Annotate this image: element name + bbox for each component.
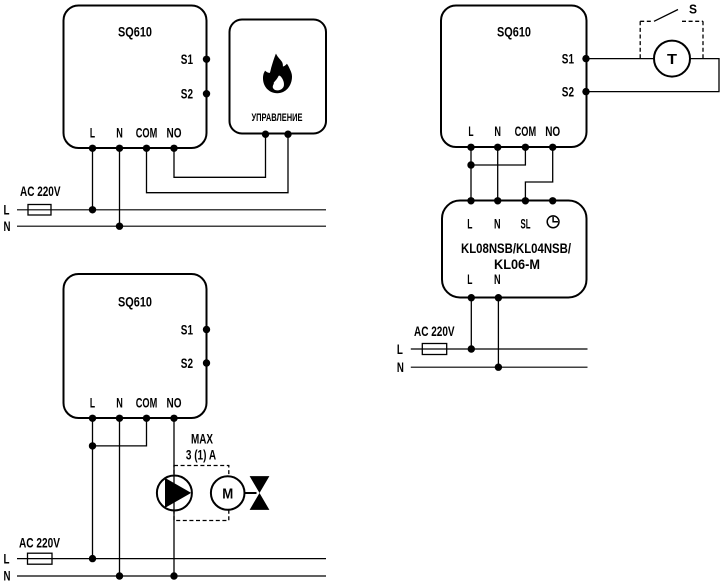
wire S1(U3) sensor loop [586, 59, 719, 92]
terminal dot COM (U3) [522, 144, 529, 151]
wire N(U1) down to mains N [119, 148, 121, 226]
svg-text:COM: COM [136, 394, 158, 410]
pump P1 rotor triangle [165, 478, 191, 508]
dashed load enclosure (pump + motor) [174, 466, 229, 521]
terminal dot NO (U1) [170, 145, 177, 152]
svg-text:УПРАВЛЕНИЕ: УПРАВЛЕНИЕ [252, 112, 303, 124]
junction jumper / L wire (U3) [467, 161, 474, 168]
mains line N (diagram 2) [17, 575, 326, 577]
svg-text:NO: NO [167, 125, 182, 141]
thermostat U3 SQ610 box [441, 6, 587, 148]
svg-text:N: N [4, 218, 11, 234]
svg-text:AC 220V: AC 220V [19, 534, 60, 550]
svg-text:N: N [397, 359, 404, 375]
mains line L (diagram 3) [411, 348, 588, 350]
boiler control box B1 [230, 20, 327, 134]
svg-text:N: N [494, 216, 501, 232]
svg-text:N: N [494, 271, 501, 287]
wire NO(U3) to KL SL [525, 147, 552, 201]
terminal dot KL N bottom (K1) [495, 294, 502, 301]
svg-text:M: M [222, 486, 233, 503]
mains line L (diagram 1) [17, 209, 326, 211]
terminal dot NO (U3) [549, 144, 556, 151]
fuse F1 [28, 205, 51, 216]
dashed sensor box top-right segment [682, 20, 703, 22]
svg-text:SQ610: SQ610 [118, 294, 152, 310]
wire COM(U1) to boiler right terminal [147, 134, 289, 193]
svg-text:COM: COM [136, 125, 158, 141]
flame icon (B1) [263, 54, 292, 93]
fuse F2 [28, 553, 53, 564]
terminal dot KL L bottom (K1) [468, 294, 475, 301]
svg-text:S2: S2 [562, 84, 574, 100]
wire KL L down to mains L [470, 298, 472, 349]
clock icon pin (K1) [547, 216, 559, 228]
terminal dot L (U2) [89, 415, 96, 422]
svg-text:NO: NO [167, 394, 182, 410]
dashed sensor box top-left segment [640, 20, 653, 22]
svg-text:SQ610: SQ610 [497, 24, 531, 40]
wire jumper COM(U2) to L wire [93, 418, 147, 446]
junction N wire / mains N (diagram 3) [495, 364, 502, 371]
temperature sensor T circle [654, 41, 690, 77]
terminal dot N (U2) [116, 415, 123, 422]
terminal dot L (U1) [89, 145, 96, 152]
wire NO(U1) to boiler left terminal [174, 134, 266, 177]
svg-text:N: N [116, 125, 123, 141]
svg-text:T: T [667, 51, 677, 68]
terminal dot S1 (U1) [203, 56, 210, 63]
wire M1 to valve [245, 492, 257, 494]
terminal dot N (U1) [116, 145, 123, 152]
svg-text:S1: S1 [562, 51, 574, 67]
motor M1 circle [211, 476, 245, 510]
thermostat U1 SQ610 box [64, 6, 207, 149]
junction L wire / mains L (diagram 2) [89, 555, 96, 562]
svg-text:L: L [397, 341, 403, 357]
terminal dot COM (U2) [143, 415, 150, 422]
svg-text:KL06-M: KL06-M [494, 256, 540, 272]
fuse F3 [422, 344, 446, 355]
svg-text:S2: S2 [181, 355, 193, 371]
terminal dot L (U3) [467, 144, 474, 151]
junction L wire / mains L (diagram 1) [89, 206, 96, 213]
mains line N (diagram 3) [411, 366, 588, 368]
svg-text:L: L [467, 271, 472, 287]
svg-text:L: L [467, 216, 472, 232]
wire jumper COM(U3) to L wire [471, 147, 525, 165]
terminal dot N (U3) [494, 144, 501, 151]
wire L(U2) down to mains L [92, 418, 94, 558]
svg-text:L: L [468, 123, 473, 139]
svg-text:AC 220V: AC 220V [414, 323, 455, 339]
terminal dot S2 (U1) [203, 90, 210, 97]
junction NO wire / mains N (diagram 2) [170, 572, 177, 579]
svg-text:S1: S1 [181, 51, 193, 67]
svg-text:MAX: MAX [191, 431, 213, 447]
svg-text:N: N [4, 568, 11, 584]
junction N wire / mains N (diagram 2) [116, 572, 123, 579]
svg-text:N: N [494, 123, 501, 139]
terminal dot KL clock top (K1) [549, 197, 556, 204]
terminal dot KL SL top (K1) [522, 197, 529, 204]
wire KL N down to mains N [497, 298, 499, 368]
svg-text:S1: S1 [181, 322, 193, 338]
valve V1 bowtie [250, 476, 270, 510]
svg-text:N: N [116, 394, 123, 410]
svg-text:L: L [4, 550, 10, 566]
wire NO through pump P1 [173, 476, 175, 511]
wire N(U3) to KL N [497, 147, 499, 201]
svg-text:COM: COM [515, 123, 537, 139]
wire L(U3) to KL L [470, 147, 472, 201]
svg-text:KL08NSB/KL04NSB/: KL08NSB/KL04NSB/ [461, 240, 571, 256]
terminal dot NO (U2) [170, 415, 177, 422]
dashed sensor box left edge [639, 21, 641, 58]
terminal dot S1 (U3) [582, 55, 589, 62]
terminal dot S2 (U3) [582, 88, 589, 95]
svg-text:S: S [689, 2, 697, 17]
svg-text:L: L [90, 125, 95, 141]
dashed sensor box right edge [702, 21, 704, 58]
terminal dot S1 (U2) [203, 326, 210, 333]
switch S blade [654, 10, 678, 22]
junction L wire / mains L (diagram 3) [468, 345, 475, 352]
wire L(U1) down to mains L [92, 148, 94, 210]
pump P1 circle [157, 476, 192, 511]
wire N(U2) down to mains N [119, 418, 121, 576]
svg-text:3 (1) A: 3 (1) A [186, 447, 216, 463]
mains line N (diagram 1) [17, 225, 326, 227]
junction jumper / L wire (U2) [89, 442, 96, 449]
terminal dot KL N top (K1) [494, 197, 501, 204]
svg-text:SL: SL [521, 216, 531, 232]
terminal dot KL L top (K1) [467, 197, 474, 204]
thermostat U2 SQ610 box [64, 274, 207, 418]
terminal dot S2 (U2) [203, 359, 210, 366]
terminal dot boiler left (B1) [262, 131, 269, 138]
terminal dot boiler right (B1) [284, 131, 291, 138]
svg-text:AC 220V: AC 220V [20, 183, 61, 199]
terminal dot COM (U1) [143, 145, 150, 152]
wiring centre K1 KL box [442, 201, 587, 298]
svg-text:L: L [90, 394, 95, 410]
junction N wire / mains N (diagram 1) [116, 223, 123, 230]
wire NO(U2) down through pump to mains N [173, 418, 175, 576]
svg-text:SQ610: SQ610 [118, 24, 152, 40]
mains line L (diagram 2) [17, 558, 326, 560]
svg-text:S2: S2 [181, 86, 193, 102]
svg-text:L: L [4, 202, 10, 218]
svg-text:NO: NO [545, 123, 560, 139]
